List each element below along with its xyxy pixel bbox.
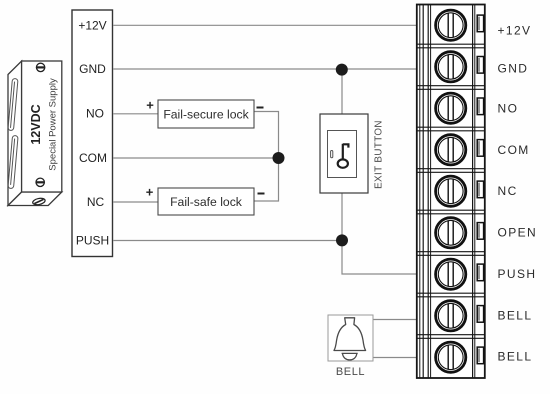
wire bell top [373,319,417,321]
TB1 wire clamp 7 (PUSH) [477,264,483,281]
bell B1 icon [334,318,366,360]
L1 minus terminal [257,107,264,109]
svg-text:+12V: +12V [498,23,532,37]
svg-text:NO: NO [498,101,519,115]
wire NO to fail-secure + [113,113,158,115]
svg-text:BELL: BELL [336,366,365,378]
power supply bottom screw (ellipse) [32,197,46,205]
svg-text:Fail-secure lock: Fail-secure lock [163,108,249,122]
junction node GND/exit [336,64,348,76]
wire PUSH node down and to strip [342,241,417,275]
exit button S1 inner plate [328,131,357,178]
svg-text:NC: NC [498,184,518,198]
power supply vent slot 1 [8,78,18,130]
wire bell bottom [373,357,417,359]
power supply screw bottom [36,178,44,186]
TB1 screw terminal 9 (BELL) [436,342,466,372]
exit button slot mark [331,151,333,158]
svg-text:COM: COM [498,143,530,157]
junction node COM/locks [273,152,285,164]
TB1 screw terminal 4 (COM) [436,135,466,165]
TB1 wire clamp 4 (COM) [477,140,483,157]
svg-text:COM: COM [79,151,107,165]
wire +12V [113,24,417,26]
svg-text:GND: GND [498,61,529,75]
power supply vent slot 2 [8,135,18,188]
TB1 wire clamp 6 (OPEN) [477,223,483,240]
svg-text:BELL: BELL [498,308,533,322]
svg-text:EXIT BUTTON: EXIT BUTTON [374,120,385,189]
power supply PS1 body [8,61,62,206]
TB1 row divider 1 [417,43,485,45]
TB1 wire clamp 9 (BELL) [477,347,483,364]
TB1 screw terminal 5 (NC) [436,176,466,206]
power supply screw top [36,63,44,71]
svg-text:Fail-safe lock: Fail-safe lock [170,195,243,209]
svg-text:PUSH: PUSH [498,267,537,281]
wire COM to node [113,157,278,159]
svg-text:+: + [146,98,154,113]
TB1 wire clamp 2 (GND) [477,57,483,74]
wire NC to fail-safe + [113,201,158,203]
wire GND node to exit button [341,69,343,114]
TB1 screw terminal 3 (NO) [436,93,466,123]
TB1 row divider 7 [417,292,485,294]
TB1 row divider 8 [417,334,485,336]
svg-text:+12V: +12V [78,19,106,33]
TB1 row divider 4 [417,168,485,170]
wire GND [113,68,417,70]
TB1 screw terminal 2 (GND) [436,52,466,82]
TB1 row divider 3 [417,126,485,128]
TB1 wire clamp 5 (NC) [477,181,483,198]
TB1 wire clamp 3 (NO) [477,98,483,115]
TB1 left rail lines [419,5,421,379]
svg-text:12VDC: 12VDC [29,104,43,144]
svg-text:NO: NO [86,107,104,121]
L2 minus terminal [258,193,265,195]
fail-safe lock L2 [158,188,254,215]
TB1 row divider 5 [417,209,485,211]
fail-secure lock L1 [158,100,254,128]
svg-text:PUSH: PUSH [76,234,109,248]
TB1 screw terminal 6 (OPEN) [436,218,466,248]
TB1 screw terminal 1 (+12V) [436,10,466,40]
bell B1 box [328,315,373,361]
svg-text:BELL: BELL [498,349,533,363]
terminal strip TB1 body [417,5,485,379]
svg-text:OPEN: OPEN [498,225,538,239]
junction node PUSH/exit [336,234,348,246]
exit button S1 outer [320,114,368,193]
TB1 right rail lines [472,5,474,379]
svg-text:+: + [146,185,154,200]
TB1 screw terminal 7 (PUSH) [436,259,466,289]
wire PUSH [113,240,342,242]
exit button key icon [338,144,349,168]
svg-text:GND: GND [79,62,106,76]
svg-text:Special Power Supply: Special Power Supply [48,78,59,171]
svg-text:NC: NC [87,195,105,209]
TB1 wire clamp 1 (+12V) [477,15,483,32]
wire fail-safe - to node [254,158,279,201]
controller terminal block J1 [72,10,113,257]
TB1 row divider 6 [417,251,485,253]
TB1 row divider 2 [417,85,485,87]
wire exit button to PUSH node [341,193,343,241]
TB1 wire clamp 8 (BELL) [477,306,483,323]
TB1 screw terminal 8 (BELL) [436,301,466,331]
wire fail-secure - to node [254,112,279,159]
